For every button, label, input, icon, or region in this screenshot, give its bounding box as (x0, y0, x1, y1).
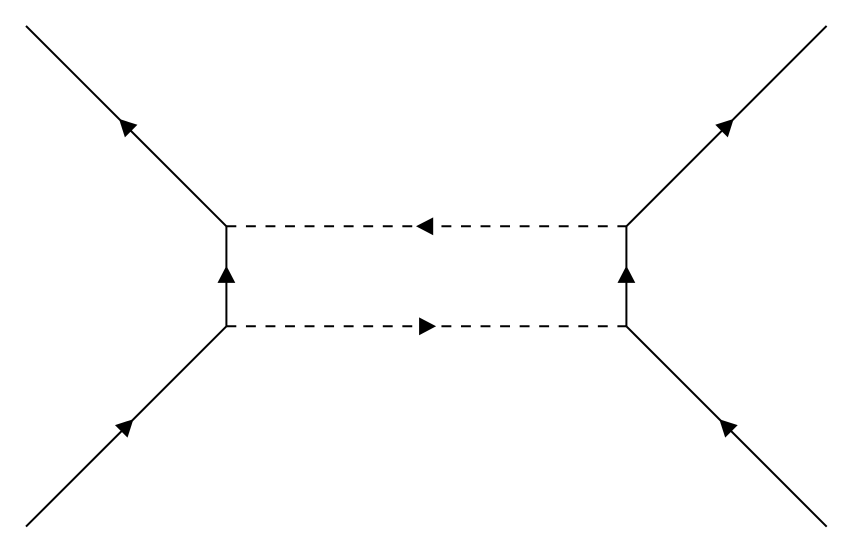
wire: incoming fermion line bottom-right leg (626, 326, 826, 526)
arrow on bottom-right leg (points up-left) (719, 419, 737, 437)
arrow on right vertical (points up) (618, 266, 636, 283)
arrow on top dashed line (points left) (416, 217, 433, 235)
wire: bottom dashed scalar propagator (226, 325, 626, 327)
wire: incoming fermion line bottom-left leg (26, 326, 226, 526)
arrow on bottom dashed line (points right) (419, 317, 436, 335)
wire: incoming fermion line top-left leg (26, 26, 226, 226)
arrow on left vertical (points up) (218, 266, 236, 283)
wire: left vertical fermion propagator (225, 226, 227, 326)
arrow on top-left leg (points up-left) (119, 119, 137, 137)
wire: right vertical fermion propagator (625, 226, 627, 326)
wire: outgoing fermion line top-right leg (626, 26, 826, 226)
arrow on top-right leg (points up-right) (715, 119, 733, 137)
arrow on bottom-left leg (points up-right) (115, 419, 133, 437)
wire: top dashed scalar propagator (226, 225, 626, 227)
